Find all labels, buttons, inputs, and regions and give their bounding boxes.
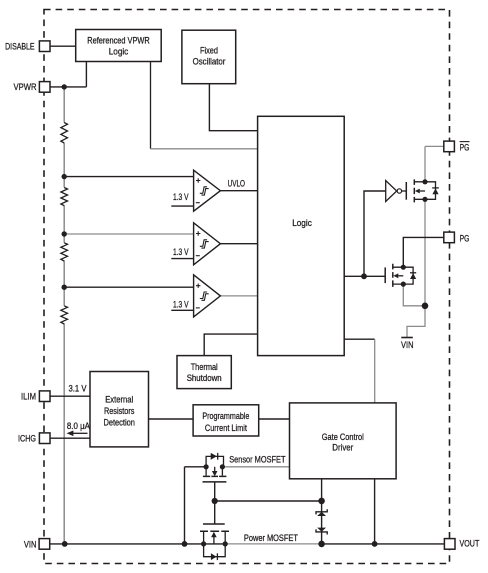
- svg-text:Logic: Logic: [109, 46, 129, 56]
- pin VPWR: [14, 82, 51, 93]
- wire DISABLE to Referenced VPWR Logic: [50, 45, 76, 47]
- pin PG-bar: [444, 141, 470, 152]
- wire 1.3V to comparator U1 - input: [171, 205, 193, 207]
- diode Z1 zener: [316, 509, 327, 516]
- wire tap node 2 to comparator U2 + input: [64, 233, 193, 235]
- svg-text:1.3 V: 1.3 V: [173, 299, 189, 309]
- svg-text:Gate Control: Gate Control: [322, 432, 364, 442]
- svg-text:Thermal: Thermal: [191, 362, 218, 372]
- block Fixed Oscillator: [182, 30, 236, 83]
- wire sensor MOSFET left leg to bottom rail: [185, 467, 207, 544]
- inverter U4: [386, 181, 407, 202]
- svg-text:Resistors: Resistors: [104, 406, 135, 416]
- resistor R3: [61, 243, 68, 261]
- node sensor gate: [212, 498, 218, 504]
- wire Logic to MOSFET gates node: [344, 275, 385, 277]
- svg-text:Power MOSFET: Power MOSFET: [244, 533, 299, 543]
- wire comparator U2 output to Logic: [220, 243, 257, 245]
- node M2 source junction: [422, 303, 429, 310]
- svg-text:Detection: Detection: [103, 417, 135, 427]
- node zener top: [318, 498, 325, 505]
- svg-text:Referenced VPWR: Referenced VPWR: [87, 36, 150, 46]
- wire Thermal Shutdown to Logic: [204, 334, 257, 356]
- wire Gate Control Driver right output to bottom rail: [374, 479, 376, 544]
- wire node to VIN rail symbol: [407, 306, 425, 338]
- arrow 8.0 uA current direction: [67, 431, 88, 437]
- VIN rail symbol bar: [401, 337, 413, 339]
- wire sensor gate chain: [214, 482, 216, 524]
- svg-text:Programmable: Programmable: [202, 411, 249, 421]
- pin DISABLE: [5, 41, 50, 52]
- transistor Q1 Sensor MOSFET: [203, 453, 227, 482]
- svg-text:Fixed: Fixed: [200, 46, 218, 56]
- transistor Q2 Power MOSFET: [200, 524, 229, 560]
- svg-text:VIN: VIN: [24, 540, 37, 550]
- node sensor leg bottom: [182, 541, 188, 547]
- node tap 2: [61, 231, 66, 236]
- svg-text:PG: PG: [460, 233, 470, 243]
- svg-text:Logic: Logic: [292, 218, 312, 228]
- svg-text:ILIM: ILIM: [21, 392, 36, 402]
- pin VOUT: [444, 538, 479, 549]
- block Logic: [258, 116, 345, 355]
- resistor R2: [61, 188, 68, 206]
- svg-text:VPWR: VPWR: [14, 82, 37, 92]
- svg-text:DISABLE: DISABLE: [5, 41, 35, 51]
- svg-text:PG: PG: [460, 142, 470, 152]
- block External Resistors Detection: [90, 372, 149, 447]
- svg-text:ICHG: ICHG: [18, 433, 36, 443]
- wire comparator U3 output to Logic: [220, 295, 257, 297]
- svg-text:1.3 V: 1.3 V: [173, 247, 189, 257]
- node tap 3: [61, 285, 66, 290]
- wire Gate Control Driver to zener node: [321, 479, 323, 501]
- svg-text:VOUT: VOUT: [460, 538, 480, 548]
- node VIN rail left: [62, 541, 68, 547]
- svg-text:UVLO: UVLO: [228, 179, 246, 189]
- svg-text:1.3 V: 1.3 V: [173, 192, 189, 202]
- pin ICHG: [18, 433, 50, 444]
- wire tap node 3 to comparator U3 + input: [64, 286, 193, 288]
- diode Z2 zener: [316, 528, 327, 535]
- transistor M2 (PG switch): [385, 264, 416, 287]
- svg-text:Driver: Driver: [332, 443, 353, 453]
- svg-text:8.0 μA: 8.0 μA: [67, 421, 90, 431]
- wire comparator U1 output UVLO to Logic: [220, 190, 257, 192]
- wire sensor MOSFET source to Gate Control Driver: [222, 466, 289, 468]
- svg-text:Oscillator: Oscillator: [193, 57, 226, 67]
- block U1 Referenced VPWR Logic: [76, 30, 162, 62]
- svg-text:Current Limit: Current Limit: [205, 423, 247, 433]
- svg-text:External: External: [105, 395, 133, 405]
- wire to PG-bar pin: [425, 145, 444, 147]
- svg-text:Shutdown: Shutdown: [187, 373, 222, 383]
- svg-text:3.1 V: 3.1 V: [69, 383, 87, 393]
- wire Referenced VPWR Logic to Logic vertical: [150, 62, 152, 149]
- wire bottom rail VIN to VOUT gray segment: [225, 543, 321, 545]
- wire Logic to Gate Control Driver horizontal: [344, 338, 375, 340]
- wire External Resistors Detection to Programmable Current Limit: [149, 418, 194, 420]
- node tap 1: [61, 174, 66, 179]
- wire Referenced VPWR Logic to Logic horizontal: [151, 148, 258, 150]
- wire ILIM to External Resistors Detection: [50, 395, 90, 397]
- pin PG: [444, 232, 470, 243]
- wire gate node up to inverter input: [364, 191, 386, 276]
- wire bottom rail black segments: [50, 543, 445, 545]
- op-amp U3 comparator: [194, 275, 221, 317]
- block Thermal Shutdown: [177, 356, 231, 389]
- wire ICHG to External Resistors Detection: [50, 437, 90, 439]
- wire Logic to Gate Control Driver vertical: [374, 339, 376, 403]
- node gate input: [361, 273, 367, 279]
- node GCD output bottom: [372, 541, 378, 547]
- block Gate Control Driver: [290, 403, 397, 479]
- wire upper right vertical to PG-bar: [424, 146, 426, 305]
- node VPWR junction: [61, 84, 66, 89]
- wire tap node 1 to comparator U1 + input: [64, 176, 193, 178]
- resistor R1: [61, 123, 68, 143]
- node zener bottom: [318, 541, 325, 548]
- wire 1.3V to comparator U2 - input: [171, 258, 193, 260]
- transistor M1 (PG-bar switch): [406, 179, 439, 202]
- wire VPWR rail: [63, 87, 65, 544]
- wire PG pin to transistor M2 drain: [403, 237, 444, 267]
- op-amp U1 comparator UVLO: [194, 170, 221, 211]
- pin VIN: [24, 539, 50, 550]
- pin ILIM: [21, 391, 50, 402]
- resistor R4: [61, 306, 68, 324]
- wire 1.3V to comparator U3 - input: [171, 309, 193, 311]
- wire Fixed Oscillator to Logic: [209, 84, 257, 131]
- wire zener stack vertical: [321, 501, 323, 544]
- wire gate node to zener node: [215, 500, 322, 502]
- op-amp U2 comparator: [194, 223, 221, 265]
- block Programmable Current Limit: [193, 405, 259, 436]
- svg-text:Sensor MOSFET: Sensor MOSFET: [229, 455, 286, 465]
- svg-text:VIN: VIN: [401, 340, 414, 350]
- wire VPWR to Referenced VPWR Logic: [50, 62, 87, 87]
- wire Programmable Current Limit to Gate Control Driver: [259, 418, 290, 420]
- wire M2 source down to node: [403, 284, 425, 306]
